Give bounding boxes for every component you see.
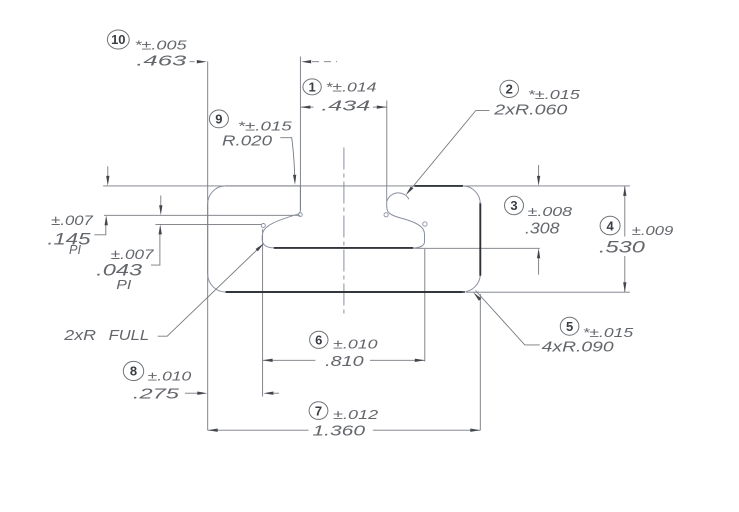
dim 2 label <box>500 80 519 97</box>
extension line: y=224.4 for dim .043 <box>155 223 261 225</box>
svg-text:.463: .463 <box>136 53 187 70</box>
svg-text:2: 2 <box>506 82 513 97</box>
svg-text:±.010: ±.010 <box>148 369 193 384</box>
extension line: part left edge vertical x=207.7 <box>207 61 209 430</box>
extension line: lip bottom y=215.3 for dim .145 <box>104 214 300 216</box>
svg-text:4xR.090: 4xR.090 <box>542 338 615 355</box>
extension line: part right edge x=480.3 below <box>479 294 481 430</box>
extension line: cavity left end x=262.6 <box>262 229 264 396</box>
dim 3 bottom arrow <box>538 255 540 275</box>
svg-text:.043: .043 <box>96 261 143 279</box>
center mark circle at cavity right <box>423 222 427 226</box>
dim 4 dimension line x=624.8 <box>624 186 626 237</box>
svg-text:1: 1 <box>308 80 315 95</box>
dim 4 label <box>600 216 620 235</box>
svg-text:3: 3 <box>510 198 517 213</box>
dim 3 label <box>505 196 524 214</box>
dim 1 label <box>303 79 321 95</box>
svg-text:R.020: R.020 <box>222 133 273 150</box>
extension line: right slot lip vertical x=386.8 <box>386 101 388 187</box>
svg-text:PI: PI <box>69 243 82 257</box>
extension line: top edge horizontal y=185.9 <box>103 185 630 187</box>
extension line: cavity right end x=424.8 <box>424 249 426 362</box>
svg-text:*±.015: *±.015 <box>238 119 293 134</box>
dim 10 left arrow <box>190 61 198 63</box>
svg-text:7: 7 <box>315 403 322 418</box>
dim 9 label <box>209 110 228 128</box>
svg-text:.434: .434 <box>321 98 370 115</box>
part outline: top-right corner R.090 <box>462 186 480 204</box>
svg-text:FULL: FULL <box>109 327 149 344</box>
center mark circle at right lip <box>384 213 388 217</box>
dim 8 right arrow <box>263 392 273 395</box>
dim 7 label <box>309 402 328 420</box>
svg-text:±.007: ±.007 <box>111 246 155 262</box>
svg-text:2xR: 2xR <box>63 327 96 344</box>
extension line: left lip vertical x=300.4 <box>299 57 301 211</box>
svg-text:.530: .530 <box>599 238 646 256</box>
slot left lip vertical <box>299 186 301 211</box>
svg-text:9: 9 <box>215 112 222 127</box>
dim 3 top arrow <box>538 165 540 179</box>
part outline: right edge thick <box>479 203 481 276</box>
2xR FULL leader <box>158 246 261 336</box>
extension line: cavity bottom right y=248.3 <box>413 247 540 249</box>
part outline: bottom edge thick <box>226 291 465 293</box>
dim 10 label <box>107 30 129 49</box>
part outline: bottom-right corner R.090 <box>462 274 480 292</box>
svg-text:±.007: ±.007 <box>51 212 94 228</box>
svg-text:5: 5 <box>566 319 573 334</box>
part outline: left edge <box>207 204 209 274</box>
centerline vertical x=343.9 dash-dot <box>343 148 345 315</box>
dim 2 leader <box>408 110 489 192</box>
svg-text:*±.015: *±.015 <box>528 87 581 102</box>
svg-text:6: 6 <box>315 333 322 348</box>
svg-text:.275: .275 <box>133 386 180 403</box>
svg-text:4: 4 <box>606 218 614 233</box>
svg-text:±.009: ±.009 <box>632 223 674 238</box>
svg-text:*±.014: *±.014 <box>326 80 377 95</box>
part outline: top edge thin left segment <box>226 185 301 187</box>
dim .145 leader and arrows <box>94 225 106 235</box>
slot right R.060 hook arc <box>387 193 409 201</box>
dim 8 label <box>123 361 143 380</box>
dim 7 dimension line y=430.2 <box>208 429 309 431</box>
svg-text:8: 8 <box>130 364 137 379</box>
extension line: bottom edge right y=292.2 <box>466 291 630 293</box>
svg-text:±.008: ±.008 <box>528 204 573 219</box>
part outline: bottom-left corner R.090 <box>208 274 226 292</box>
dim 9 leader <box>280 138 295 181</box>
svg-text:.308: .308 <box>525 221 560 238</box>
dim 5 label <box>560 317 579 335</box>
slot left lip R.020 arc <box>296 210 300 214</box>
slot left full-radius sweep <box>262 215 296 248</box>
svg-text:±.010: ±.010 <box>333 336 378 351</box>
part outline: top edge thick segment right of slot <box>415 185 463 187</box>
dim .043 leader and arrows <box>151 234 160 265</box>
center mark circle at left lip <box>298 213 302 217</box>
part outline: top-left corner R.090 <box>208 186 226 204</box>
dim 6 dimension line y=360.3 <box>263 359 316 361</box>
svg-text:1.360: 1.360 <box>313 423 366 440</box>
svg-text:2xR.060: 2xR.060 <box>493 102 568 119</box>
dim 1 dimension line y=107.1 <box>300 106 313 108</box>
dim 6 label <box>310 331 328 348</box>
svg-text:±.012: ±.012 <box>333 407 379 422</box>
dim 10 right arrow with dashed tail <box>301 60 311 63</box>
cavity bottom thick line <box>274 247 414 249</box>
dim 5 leader <box>476 291 540 345</box>
svg-text:*±.005: *±.005 <box>135 38 188 53</box>
center mark circle at cavity left <box>261 224 265 228</box>
svg-text:PI: PI <box>116 278 132 292</box>
slot right wall curve <box>387 186 425 248</box>
svg-text:.810: .810 <box>325 353 364 370</box>
dim 8 left arrow <box>185 392 199 394</box>
svg-text:10: 10 <box>111 32 125 47</box>
